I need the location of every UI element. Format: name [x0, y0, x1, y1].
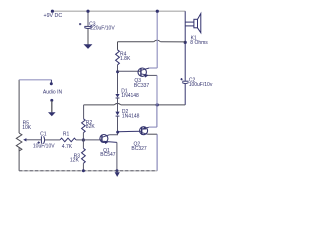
wire R4 to Q3 base tap — [117, 65, 119, 94]
wire C3 to ground — [87, 29, 89, 45]
svg-text:BC547: BC547 — [100, 152, 116, 158]
wire speaker junction down to C2 — [184, 42, 186, 80]
wiper arrow of R5 — [26, 139, 42, 141]
svg-text:R1: R1 — [63, 131, 70, 137]
svg-text:+9V DC: +9V DC — [44, 13, 63, 19]
speaker K1 — [190, 14, 208, 46]
wire Q2 collector jog down to ground rail — [148, 133, 158, 135]
wire corner down to R4 — [117, 42, 119, 50]
node junction R3-ground — [82, 169, 85, 172]
capacitor C3 — [79, 22, 115, 32]
wire Q1 base — [83, 139, 102, 141]
wire top +9V rail — [52, 10, 185, 12]
svg-text:Audio IN: Audio IN — [43, 90, 63, 96]
node junction D2/Q2 base/Q1 collector — [116, 131, 119, 134]
svg-text:100uF/10v: 100uF/10v — [189, 82, 213, 88]
svg-text:4.7K: 4.7K — [62, 144, 73, 150]
svg-text:BC337: BC337 — [134, 83, 150, 89]
wire C2 down to output row — [184, 84, 186, 105]
svg-text:82K: 82K — [86, 124, 96, 130]
wire Q1 emitter down to ground rail — [116, 142, 118, 170]
transistor Q3 — [134, 68, 150, 89]
resistor R1 — [60, 131, 83, 150]
node junction Q1 emitter-ground — [116, 169, 119, 172]
wire between diodes (under hop) — [117, 98, 119, 112]
node +9V supply terminal — [51, 10, 54, 13]
svg-text:8 Ohms: 8 Ohms — [190, 40, 208, 46]
wire ground rail — [19, 170, 157, 172]
node junction C3-rail — [86, 10, 89, 13]
diode D2 — [115, 109, 139, 119]
svg-text:1N4148: 1N4148 — [122, 113, 140, 119]
node output junction — [156, 103, 159, 106]
wire Q3 base — [118, 70, 142, 72]
node junction speaker/C2/R4 wire — [184, 41, 187, 44]
wire R2 corner from output row — [83, 105, 85, 119]
wire Q2 emitter jog up to output node — [149, 126, 157, 128]
wire output node row from R2 corner with hop over diode chain — [84, 104, 115, 106]
resistor R4 — [116, 50, 131, 65]
svg-text:12K: 12K — [70, 158, 80, 164]
node junction Q3 base tap — [116, 70, 119, 73]
wire R4 top to speaker junction with hop over Q3 collector line — [118, 41, 154, 43]
audio in arrow — [51, 101, 53, 112]
wire speaker stubs — [185, 21, 194, 23]
node junction R1/R2/R3/Q1 base — [82, 138, 85, 141]
svg-text:C1: C1 — [40, 131, 47, 137]
svg-text:1.8K: 1.8K — [120, 56, 131, 62]
wire D2 down to Q2 base tap and corner to Q1 collector — [109, 116, 117, 135]
wire output row right segment — [158, 104, 185, 106]
wire Q3 emitter jog down to output node — [148, 74, 157, 76]
potentiometer R5 — [16, 80, 31, 171]
svg-text:220uF/10V: 220uF/10V — [90, 25, 115, 31]
diode D1 — [115, 89, 139, 99]
wire Q3 collector jog to rail vertical — [149, 67, 157, 69]
ground arrow below rail — [116, 171, 118, 173]
capacitor C1 — [33, 131, 60, 149]
node arrow tail dot — [50, 99, 53, 102]
svg-text:1N4148: 1N4148 — [121, 93, 139, 99]
wire rail corner down to speaker junction — [184, 11, 186, 42]
wire C3 tap from rail — [87, 11, 89, 26]
wire audio input branch — [19, 79, 51, 81]
wire R2 to base node — [82, 133, 84, 140]
node junction rail-Q3 collector — [156, 10, 159, 13]
svg-text:BC327: BC327 — [131, 146, 147, 152]
ground below C3 — [84, 44, 93, 49]
wire Q2 base — [118, 130, 142, 132]
svg-text:10K: 10K — [22, 125, 32, 131]
node audio input terminal — [50, 82, 53, 85]
transistor Q1 — [100, 135, 117, 159]
resistor R3 — [70, 140, 85, 171]
transistor Q2 — [131, 127, 149, 152]
resistor R2 — [82, 119, 96, 133]
capacitor C2 — [180, 78, 212, 88]
svg-text:10uF/10V: 10uF/10V — [33, 144, 55, 150]
